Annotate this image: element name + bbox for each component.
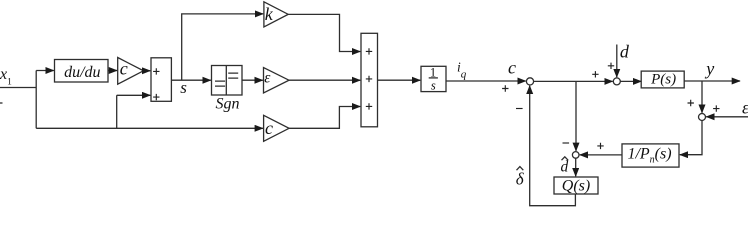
block integrator 1/s [421, 65, 446, 92]
plus sign 1/Pn input [597, 143, 603, 149]
gain epsilon triangle [264, 68, 290, 94]
node epsilon label [742, 98, 748, 118]
svg-text:d: d [620, 41, 630, 61]
wire disturbance d drop [616, 45, 618, 78]
svg-text:x1: x1 [0, 66, 12, 87]
block du/du [55, 60, 109, 83]
wire sum circle 1 to sum circle 2 [534, 80, 613, 82]
wire sum circle 3 to 1/Pn(s) [680, 121, 702, 155]
wire sum1 to Sgn [171, 79, 210, 81]
block Q(s) [554, 177, 598, 195]
svg-text:d: d [561, 159, 569, 176]
node delta-hat label [516, 167, 525, 189]
summing block sum1 [151, 58, 171, 102]
wire Q(s) feedback to sum circle 1 [530, 86, 576, 206]
wire epsilon input [706, 116, 748, 118]
block P(s) [641, 71, 684, 88]
wire du/du to gain c [108, 70, 117, 72]
wire left edge tick [0, 102, 3, 104]
svg-text:c: c [120, 59, 128, 79]
wire bottom rail [36, 127, 263, 129]
wire gain epsilon to big sum middle input [289, 79, 360, 81]
wire x1 input [0, 87, 36, 89]
svg-text:c: c [265, 118, 273, 138]
wire integrator to sum circle 1 [446, 80, 526, 82]
wire rail riser to sum1 [117, 95, 151, 128]
minus sign feedback input [516, 108, 523, 110]
node c label [508, 57, 516, 77]
svg-text:c: c [508, 57, 516, 77]
svg-text:k: k [265, 4, 274, 24]
wire sum circle 2 to P(s) [620, 80, 641, 82]
wire gain c to sum1 [144, 70, 151, 72]
sum circle 1 [526, 78, 533, 85]
gain c (upper triangle) [118, 58, 144, 85]
wire gain k to big sum top input [288, 14, 360, 51]
svg-text:ε: ε [264, 70, 271, 87]
wire observer sum to Q(s) [575, 158, 577, 176]
gain c (lower triangle) [264, 115, 290, 141]
plus sign before sum circle 2 [592, 71, 598, 77]
node s junction and wire to gain k [182, 14, 264, 80]
node y label [704, 58, 714, 78]
sum circle 2 [613, 78, 620, 85]
plus sign d input [608, 63, 614, 69]
node s label [180, 78, 187, 97]
wire lower gain c to big sum bottom input [289, 107, 360, 129]
node iq label [457, 59, 467, 80]
svg-text:iq: iq [457, 59, 467, 80]
summing block big sum [361, 33, 378, 127]
svg-text:s: s [431, 78, 436, 92]
svg-text:1/Pn(s): 1/Pn(s) [627, 146, 671, 166]
wire into du/du [36, 70, 54, 72]
svg-text:Q(s): Q(s) [562, 178, 590, 195]
wire Sgn to gain epsilon [242, 79, 263, 81]
node d-hat label [561, 157, 569, 176]
block Sgn [212, 66, 243, 113]
wire junction drop to observer sum [575, 81, 577, 150]
svg-text:y: y [704, 58, 714, 78]
gain k triangle [264, 2, 288, 27]
wire 1/Pn(s) to observer sum [580, 154, 622, 156]
plus sign y feedback input [688, 100, 694, 106]
wire big sum to integrator [378, 79, 421, 81]
block 1/Pn(s) [622, 144, 679, 167]
node d label [620, 41, 630, 61]
sum circle 3 [699, 114, 706, 121]
plus sign epsilon input [713, 105, 719, 111]
minus sign observer top input [563, 142, 570, 144]
svg-text:ε: ε [742, 98, 748, 118]
svg-text:P(s): P(s) [650, 72, 676, 88]
wire x1 branch vertical [35, 71, 37, 129]
svg-text:du/du: du/du [64, 64, 100, 81]
plus sign iq input [502, 85, 508, 91]
wire P(s) output y [684, 80, 740, 82]
node x1 label [0, 66, 12, 87]
svg-text:Sgn: Sgn [216, 95, 240, 112]
sum circle observer [572, 152, 579, 159]
svg-text:δ: δ [516, 169, 525, 188]
wire y junction drop [701, 81, 703, 113]
